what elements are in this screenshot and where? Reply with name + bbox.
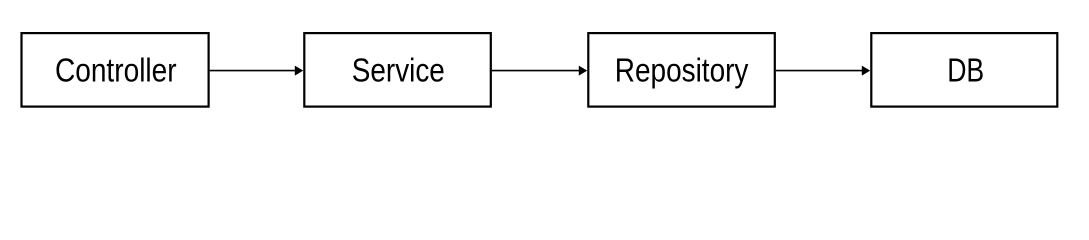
arrowhead 3: [862, 66, 870, 76]
wire arrow 1: [210, 70, 296, 72]
box Controller: [22, 33, 209, 107]
wire arrow 3: [776, 70, 863, 72]
svg-text:DB: DB: [947, 52, 984, 89]
svg-text:Controller: Controller: [55, 52, 177, 89]
svg-text:Repository: Repository: [615, 52, 749, 89]
arrowhead 2: [579, 66, 587, 76]
arrowhead 1: [295, 66, 303, 76]
box Service: [304, 33, 491, 107]
box DB: [871, 33, 1057, 107]
svg-text:Service: Service: [352, 52, 445, 89]
wire arrow 2: [492, 70, 580, 72]
box Repository: [588, 33, 775, 107]
